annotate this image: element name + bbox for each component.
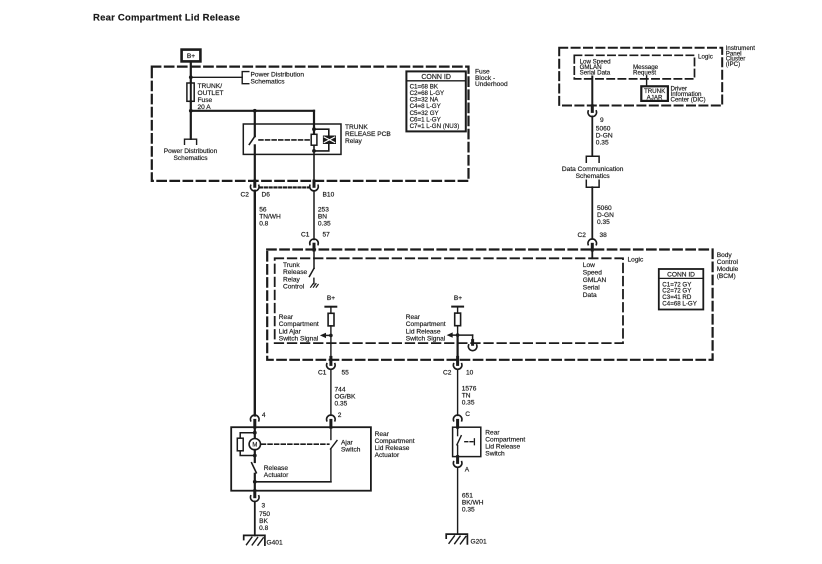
wire 750 BK 0.8 <box>254 502 256 536</box>
rear compartment lid release switch box <box>453 427 481 456</box>
svg-text:Schematics: Schematics <box>173 155 208 162</box>
svg-text:B+: B+ <box>327 295 335 302</box>
connector pin 4 (actuator) <box>250 412 265 427</box>
svg-text:0.35: 0.35 <box>335 401 348 408</box>
node B+ pullup (ajar signal) <box>325 295 336 313</box>
wire 56 TN/WH 0.8 <box>254 191 256 416</box>
svg-text:AJAR: AJAR <box>647 95 663 102</box>
rear compartment lid release actuator box <box>231 427 371 491</box>
svg-text:Rear: Rear <box>485 430 500 437</box>
svg-text:Power Distribution: Power Distribution <box>164 148 218 155</box>
svg-text:Center (DIC): Center (DIC) <box>671 96 706 103</box>
connector C1 pin 57 (BCM top) <box>301 231 330 268</box>
svg-text:Actuator: Actuator <box>264 472 289 479</box>
svg-text:Trunk: Trunk <box>283 262 300 269</box>
svg-text:OG/BK: OG/BK <box>335 394 356 401</box>
svg-text:Underhood: Underhood <box>475 81 508 88</box>
svg-text:D-GN: D-GN <box>597 212 614 219</box>
svg-text:0.8: 0.8 <box>259 525 268 532</box>
svg-text:Request: Request <box>633 70 656 77</box>
svg-text:4: 4 <box>262 412 266 419</box>
wire fuse to lower junction <box>190 101 192 139</box>
svg-text:744: 744 <box>335 387 346 394</box>
bracket to Data Communication Schematics (top) <box>586 156 599 162</box>
svg-text:TRUNK/: TRUNK/ <box>198 83 223 90</box>
arrow ajar switch signal <box>320 333 333 338</box>
svg-text:Release: Release <box>264 465 289 472</box>
svg-text:Data Communication: Data Communication <box>562 166 624 173</box>
svg-text:Module: Module <box>717 266 739 273</box>
connector tie dotted line <box>260 186 309 188</box>
svg-text:C7=1 L-GN (NU3): C7=1 L-GN (NU3) <box>410 123 460 130</box>
svg-text:C2: C2 <box>578 232 587 239</box>
svg-text:0.35: 0.35 <box>596 140 609 147</box>
fuse block underhood dashed box <box>152 67 469 181</box>
node junction at relay switch drop <box>253 109 257 113</box>
svg-text:38: 38 <box>600 232 608 239</box>
bracket to Power Distribution Schematics (bottom) <box>185 139 197 144</box>
wire message request to DIC box <box>646 76 648 87</box>
svg-text:Logic: Logic <box>628 257 644 264</box>
connector C2 pin D6 (fuse block) <box>241 181 271 199</box>
connector pin 9 (IPC) <box>588 106 604 124</box>
bracket to Power Distribution Schematics (top) <box>242 72 249 84</box>
resistor pullup (release signal) <box>455 313 461 326</box>
svg-text:CONN ID: CONN ID <box>667 272 695 279</box>
connector table CONN ID (BCM) <box>659 269 704 310</box>
svg-text:Ajar: Ajar <box>341 440 354 447</box>
svg-text:0.8: 0.8 <box>259 220 268 227</box>
svg-text:57: 57 <box>323 231 331 238</box>
connector C2 pin 38 (BCM) <box>578 232 608 258</box>
svg-text:253: 253 <box>318 206 329 213</box>
switch ajar <box>331 427 338 482</box>
svg-text:(IPC): (IPC) <box>726 61 740 68</box>
svg-text:5060: 5060 <box>596 126 611 133</box>
svg-text:0.35: 0.35 <box>597 219 610 226</box>
svg-text:C2: C2 <box>443 370 452 377</box>
wire ajar switch to main ground path <box>255 481 331 483</box>
svg-text:0.35: 0.35 <box>462 400 475 407</box>
svg-text:GMLAN: GMLAN <box>583 277 607 284</box>
fuse TRUNK/OUTLET 20A <box>187 83 194 101</box>
bracket from Data Communication Schematics (bottom) <box>586 180 599 187</box>
relay actuation dashed link <box>259 139 311 141</box>
switch lid release contacts <box>457 427 475 456</box>
svg-text:56: 56 <box>259 206 267 213</box>
svg-text:D-GN: D-GN <box>596 133 613 140</box>
svg-text:0.35: 0.35 <box>318 220 331 227</box>
wire 1576 TN 0.35 <box>457 369 459 415</box>
svg-text:Actuator: Actuator <box>375 452 400 459</box>
BCM logic dashed box <box>275 258 623 343</box>
svg-text:G401: G401 <box>267 539 283 546</box>
battery feed B+ box <box>182 50 201 62</box>
svg-text:OUTLET: OUTLET <box>198 90 224 97</box>
connector pin C (release switch) <box>453 411 470 427</box>
svg-text:Rear Compartment Lid Release: Rear Compartment Lid Release <box>93 12 240 23</box>
wire B+ to fuse <box>190 62 192 83</box>
svg-text:0.35: 0.35 <box>462 507 475 514</box>
connector table CONN ID (fuse block) <box>406 71 465 131</box>
node junction below fuse <box>189 109 193 113</box>
svg-text:9: 9 <box>600 117 604 124</box>
svg-text:Compartment: Compartment <box>279 321 319 328</box>
svg-text:A: A <box>465 467 470 474</box>
svg-text:Switch Signal: Switch Signal <box>279 336 319 343</box>
svg-text:(BCM): (BCM) <box>717 273 736 280</box>
svg-text:Compartment: Compartment <box>485 437 525 444</box>
svg-text:Release: Release <box>283 269 308 276</box>
svg-text:TN/WH: TN/WH <box>259 213 281 220</box>
connector pin A (release switch bottom) <box>453 457 469 474</box>
svg-text:Fuse: Fuse <box>198 97 213 104</box>
svg-text:Lid Release: Lid Release <box>375 445 410 452</box>
svg-text:651: 651 <box>462 493 473 500</box>
svg-text:Rear: Rear <box>279 314 294 321</box>
ground G201 <box>446 534 487 546</box>
wire coil to B10 <box>313 151 315 181</box>
svg-text:Switch Signal: Switch Signal <box>406 336 446 343</box>
svg-text:C1: C1 <box>318 370 327 377</box>
svg-text:Control: Control <box>717 259 739 266</box>
svg-text:Switch: Switch <box>341 447 361 454</box>
svg-text:C2: C2 <box>241 192 250 199</box>
svg-text:M: M <box>252 443 257 449</box>
wire drop to relay coil <box>313 111 315 135</box>
svg-text:3: 3 <box>262 502 266 509</box>
svg-text:BK: BK <box>259 518 268 525</box>
wire 5060 D-GN 0.35 (upper) <box>591 116 593 155</box>
resistor pullup (ajar signal) <box>328 313 334 326</box>
svg-text:5060: 5060 <box>597 205 612 212</box>
relay switch contacts <box>249 136 255 144</box>
IPC logic dashed box <box>574 55 694 79</box>
svg-text:B10: B10 <box>323 192 335 199</box>
svg-text:Compartment: Compartment <box>406 321 446 328</box>
svg-text:Lid Release: Lid Release <box>485 444 520 451</box>
ground G401 <box>244 535 283 546</box>
svg-text:Speed: Speed <box>583 269 602 276</box>
connector pin 3 (actuator bottom) <box>250 491 265 510</box>
svg-text:1576: 1576 <box>462 386 477 393</box>
svg-text:Relay: Relay <box>345 138 363 145</box>
svg-text:Low: Low <box>583 262 595 269</box>
ground internal (relay control) <box>311 284 319 288</box>
arrow release switch signal <box>447 332 473 337</box>
wire GMLAN from IPC <box>591 77 593 106</box>
indicator TRUNK AJAR box <box>641 86 668 101</box>
svg-text:Body: Body <box>717 252 733 259</box>
connector C2 pin 10 (BCM bottom) <box>443 357 474 376</box>
svg-text:Logic: Logic <box>698 54 713 61</box>
node B+ pullup (release signal) <box>452 295 463 313</box>
connector stub loop (release signal branch) <box>468 335 477 351</box>
svg-text:Serial Data: Serial Data <box>580 69 611 76</box>
svg-text:Control: Control <box>283 284 305 291</box>
svg-text:D6: D6 <box>262 192 271 199</box>
svg-text:Schematics: Schematics <box>251 79 286 86</box>
relay coil element <box>311 127 335 153</box>
svg-text:Rear: Rear <box>406 314 421 321</box>
wire bus to relay <box>191 110 314 112</box>
wire 651 BK/WH 0.35 <box>457 467 459 534</box>
wire 5060 D-GN 0.35 (lower) <box>591 187 593 239</box>
wire 744 OG/BK 0.35 <box>330 369 332 415</box>
svg-text:Data: Data <box>583 292 597 299</box>
svg-text:TRUNK: TRUNK <box>345 124 368 131</box>
node junction at power distribution tap <box>189 75 193 79</box>
switch release actuator <box>252 463 257 491</box>
svg-text:Schematics: Schematics <box>576 173 611 180</box>
connector C1 pin 55 (BCM bottom) <box>318 357 349 376</box>
body control module dashed box <box>267 250 712 360</box>
svg-text:Power Distribution: Power Distribution <box>251 72 305 79</box>
wire drop to relay switch <box>254 111 256 136</box>
svg-text:BN: BN <box>318 213 327 220</box>
svg-text:Rear: Rear <box>375 431 390 438</box>
actuator dashed link motor to ajar switch <box>262 443 329 445</box>
svg-text:C1: C1 <box>301 231 310 238</box>
svg-text:C: C <box>465 411 470 418</box>
svg-text:B+: B+ <box>454 295 462 302</box>
svg-text:Compartment: Compartment <box>375 438 415 445</box>
svg-text:G201: G201 <box>471 539 487 546</box>
motor M with bypass resistor <box>237 427 260 462</box>
svg-text:Switch: Switch <box>485 451 505 458</box>
svg-text:RELEASE PCB: RELEASE PCB <box>345 131 391 138</box>
transistor relay control switch <box>309 268 314 283</box>
svg-text:TN: TN <box>462 393 471 400</box>
connector pin 2 (actuator) <box>327 412 342 427</box>
svg-text:55: 55 <box>342 370 350 377</box>
svg-text:10: 10 <box>466 370 474 377</box>
svg-text:Lid Ajar: Lid Ajar <box>279 328 302 335</box>
svg-text:Serial: Serial <box>583 284 600 291</box>
svg-text:CONN ID: CONN ID <box>421 74 451 81</box>
wire tap to power distribution bracket <box>191 76 242 78</box>
svg-text:2: 2 <box>338 412 342 419</box>
instrument panel cluster dashed box <box>559 48 722 106</box>
svg-text:B+: B+ <box>187 53 195 60</box>
wire 253 BN 0.35 <box>313 191 315 240</box>
connector B10 (fuse block) <box>310 181 335 199</box>
svg-text:Relay: Relay <box>283 276 301 283</box>
svg-text:Lid Release: Lid Release <box>406 328 441 335</box>
svg-text:750: 750 <box>259 511 270 518</box>
svg-text:BK/WH: BK/WH <box>462 500 484 507</box>
svg-text:C4=68 L-GY: C4=68 L-GY <box>662 300 697 307</box>
relay TRUNK RELEASE PCB box <box>243 124 341 154</box>
